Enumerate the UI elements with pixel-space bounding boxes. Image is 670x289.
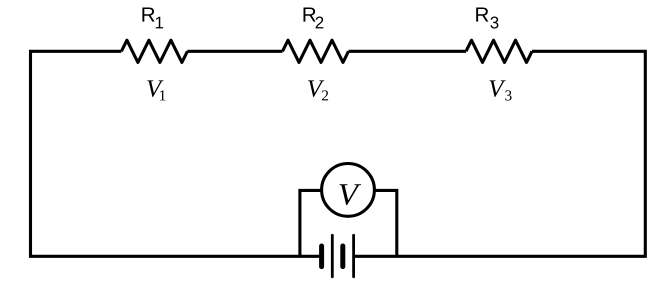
battery plate negative short (cell 2) <box>340 246 345 267</box>
label R2 <box>304 8 324 29</box>
voltmeter M1 (circle body) <box>322 164 375 217</box>
wire right loop (top-right, right side, bottom-right) <box>354 51 646 256</box>
label R3 <box>476 8 498 29</box>
resistor R3 <box>466 40 532 62</box>
resistor R1 <box>121 40 187 62</box>
wire voltmeter branch left <box>300 190 322 256</box>
wire top segment between R1 and R2 <box>187 50 282 53</box>
battery plate negative short (cell 1) <box>319 246 324 267</box>
wire left loop (top-left, left side, bottom-left) <box>31 51 321 256</box>
battery BT1 <box>322 235 354 276</box>
label V2 (voltage across R2) <box>308 80 328 100</box>
battery plate positive tall (cell 2) <box>352 235 355 276</box>
label R1 <box>142 8 163 29</box>
wire voltmeter branch right <box>374 190 397 256</box>
label V3 (voltage across R3) <box>490 80 512 100</box>
wire top segment between R2 and R3 <box>349 50 467 53</box>
resistor R2 <box>283 40 349 62</box>
battery plate positive tall (cell 1) <box>331 235 334 276</box>
label V1 (voltage across R1) <box>147 80 165 100</box>
voltmeter M1 letter V <box>339 184 361 205</box>
